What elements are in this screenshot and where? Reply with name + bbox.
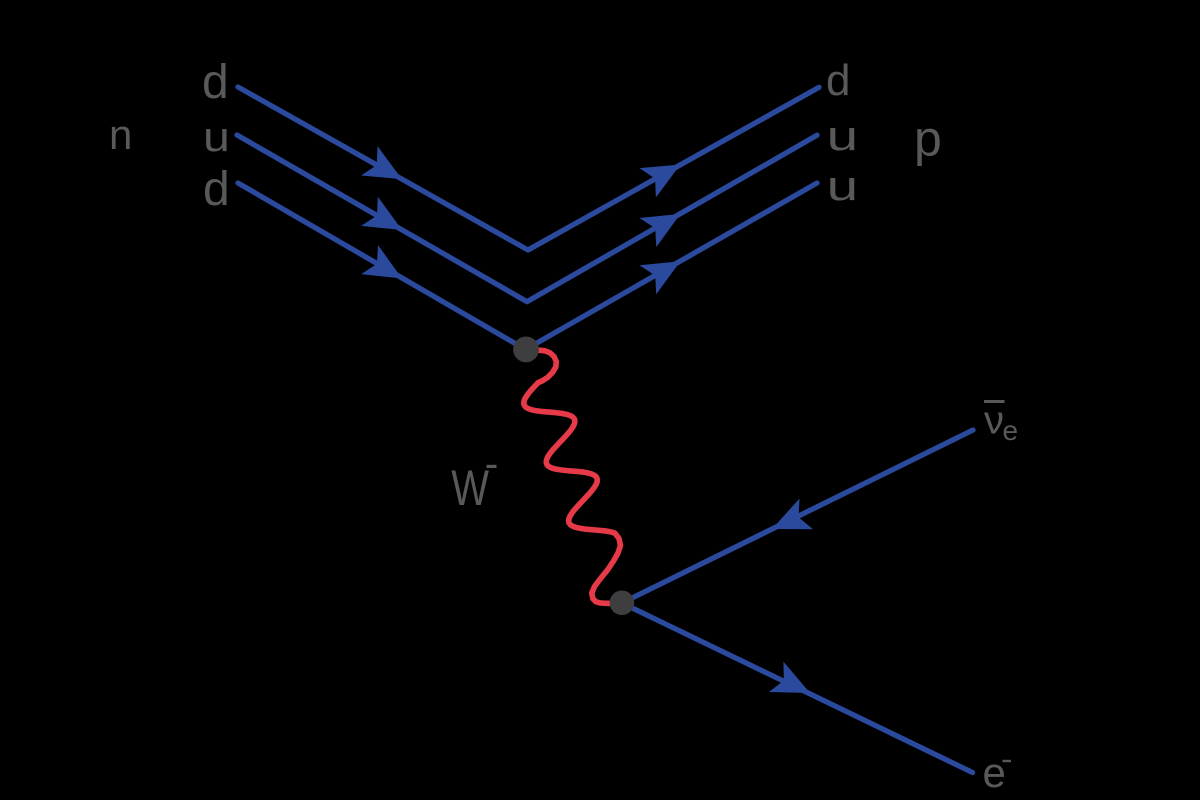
svg-text:W: W (451, 460, 489, 516)
svg-text:d: d (203, 163, 230, 216)
svg-text:e: e (1003, 415, 1019, 446)
svg-text:e: e (983, 749, 1006, 796)
svg-text:d: d (202, 56, 229, 109)
svg-text:u: u (203, 113, 230, 160)
svg-text:d: d (826, 56, 850, 105)
svg-text:p: p (914, 111, 942, 167)
svg-text:u: u (827, 162, 859, 209)
svg-text:n: n (109, 111, 132, 158)
svg-text:u: u (827, 112, 859, 159)
svg-text:ν: ν (984, 399, 1004, 443)
